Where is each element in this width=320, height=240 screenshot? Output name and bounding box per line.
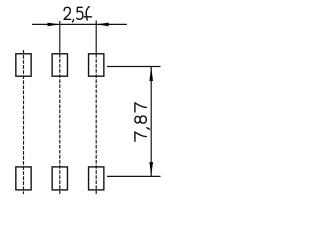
arrow right of 2,54: [96, 23, 108, 27]
pad 4 bottom: [16, 167, 31, 190]
extension line pad3 top: [95, 21, 97, 55]
arrow down of 7,87: [149, 162, 153, 176]
pad 3 top: [89, 54, 104, 76]
centerline column 3: [95, 54, 97, 194]
pad 5 bottom: [52, 167, 67, 190]
pad 1 top: [16, 54, 31, 76]
arrow up of 7,87: [149, 67, 153, 82]
centerline column 2: [59, 54, 61, 194]
arrow left of 2,54: [48, 23, 60, 27]
dimension line 2,54: [32, 23, 127, 25]
dimension text 2,54: [64, 7, 91, 22]
dimension line 7,87: [150, 67, 152, 177]
extension line right top: [107, 66, 161, 68]
dimension text 7,87 rotated: [135, 103, 150, 141]
extension line right bottom: [107, 175, 161, 177]
pad 6 bottom: [89, 167, 104, 190]
extension line pad2 top: [59, 21, 61, 54]
centerline column 1: [23, 50, 25, 194]
pad 2 top: [52, 54, 67, 76]
